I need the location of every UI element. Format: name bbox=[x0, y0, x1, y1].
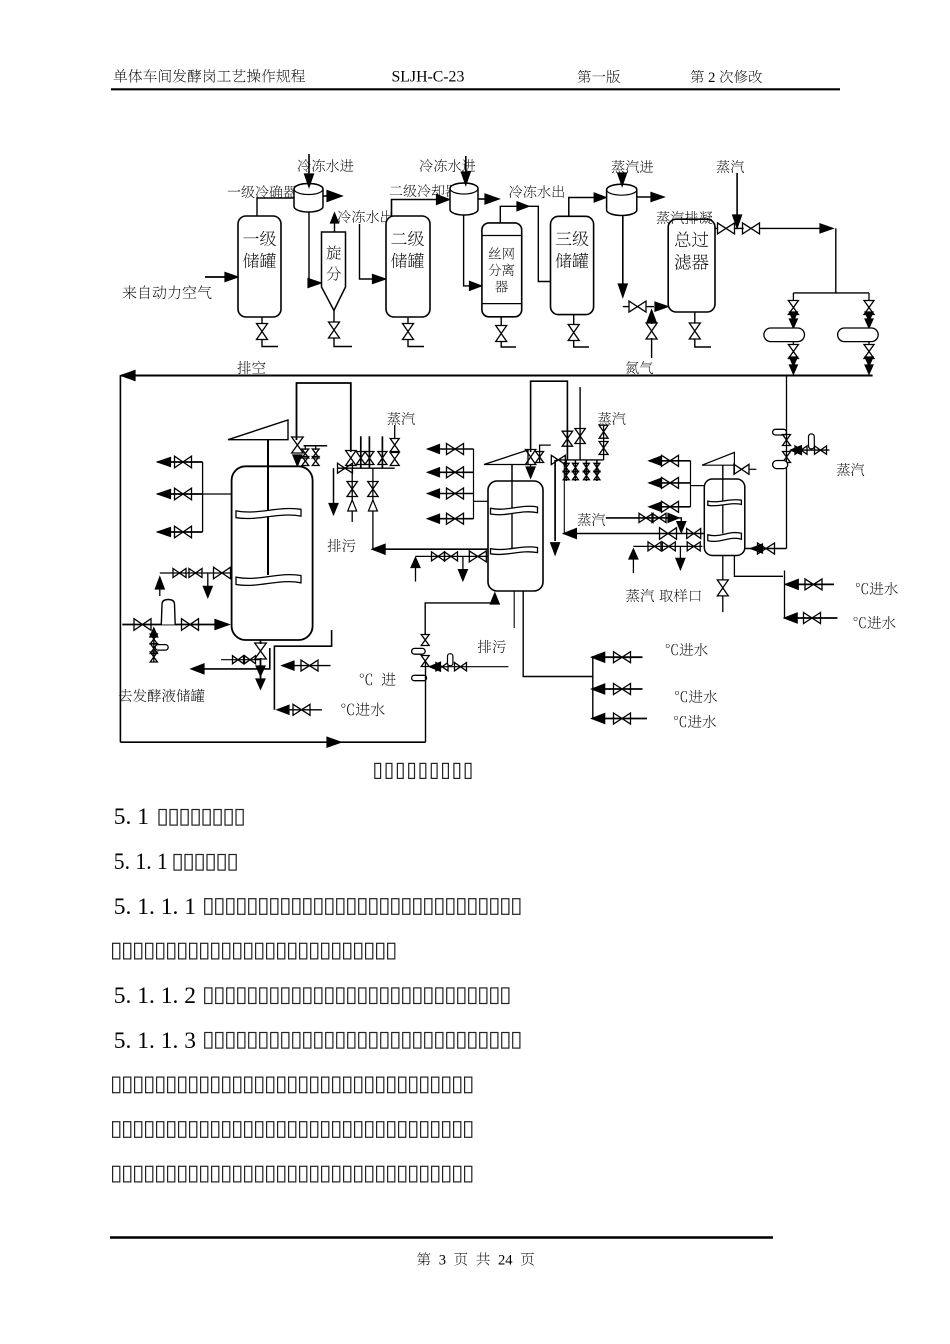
trap T1 capsule bbox=[764, 328, 805, 342]
pipe cyclone top vent bbox=[334, 222, 336, 232]
valve branch1 bottom bbox=[788, 345, 798, 359]
body 5.1.1 tofu bbox=[174, 855, 236, 871]
valve steam header 2 bbox=[743, 223, 760, 234]
valve F1 stub2 b bbox=[312, 457, 319, 466]
label 冷冻水进 (C1) bbox=[298, 159, 354, 172]
agitator shaft F2 bbox=[511, 465, 513, 548]
footer page number bbox=[417, 1252, 534, 1268]
pipe F2 side header bbox=[473, 449, 475, 519]
motor triangle F3 bbox=[702, 452, 734, 465]
valve steam mid a bbox=[639, 513, 653, 522]
arrow chilled water into C2 bbox=[461, 172, 470, 185]
pipe branch1 below bbox=[792, 342, 794, 345]
pipe C3 bottom down bbox=[622, 216, 624, 290]
fermenter F2 bbox=[488, 481, 543, 591]
body para line 2 tofu bbox=[113, 943, 395, 959]
valve V2 drain bbox=[403, 324, 414, 340]
pipe F3 cw out bbox=[734, 556, 783, 577]
pipe F2 side3 bbox=[428, 493, 474, 495]
pipe F1 drain cross bbox=[221, 659, 261, 661]
vessel V4 label 分离 bbox=[488, 264, 514, 276]
arrow into V2 bbox=[373, 275, 386, 284]
pipe branch2 below bbox=[868, 342, 870, 345]
pipe F3 drain below bbox=[722, 596, 724, 612]
pipe separator top out bbox=[500, 206, 519, 223]
arrow F2 bottom inlet bbox=[490, 593, 499, 604]
label 冷冻水出 (C2) bbox=[509, 185, 564, 198]
svg-text:5. 1. 1. 1: 5. 1. 1. 1 bbox=[114, 894, 196, 920]
vessel V2 二级储罐 bbox=[386, 216, 430, 317]
vessel V2 label 储罐 bbox=[391, 253, 424, 268]
pipe F1 loop branch1 bbox=[282, 665, 331, 667]
pipe manifold leg x580 bbox=[579, 387, 581, 460]
agitator shaft F1 inner bbox=[267, 466, 269, 575]
pipe F1 vent side header bbox=[304, 445, 328, 447]
arrow C1 outlet bbox=[327, 191, 342, 202]
pipe F3 side3 bbox=[649, 506, 691, 508]
arrow into filter bbox=[655, 302, 668, 311]
pipe 冷冻水出 to V2 bbox=[360, 224, 375, 279]
svg-text:2: 2 bbox=[705, 70, 720, 86]
impeller F2 lower bbox=[491, 547, 538, 555]
arrow branch2 down a bbox=[865, 312, 873, 321]
pipe F2 manifold thin leg bbox=[563, 462, 565, 533]
valve F2 side1 bbox=[447, 444, 464, 455]
cooler C1 一级冷确器 bbox=[294, 184, 323, 213]
label ℃进水 (F2 b) bbox=[675, 690, 717, 703]
pipe steam mid corner bbox=[676, 518, 681, 524]
valve F3 side3 bbox=[662, 501, 679, 512]
valve F1 inlet 1 bbox=[134, 619, 151, 631]
pipe branch1 stem bbox=[792, 293, 794, 301]
valve F2 lower a bbox=[432, 552, 445, 561]
vessel V5 label 总过 bbox=[675, 231, 708, 247]
valve F2 hang 1 b bbox=[563, 471, 569, 479]
valve F2 hang 3 b bbox=[583, 471, 589, 479]
motor triangle F2 bbox=[484, 450, 528, 465]
pipe F1 feed up stem bbox=[159, 589, 161, 596]
arrow F2 side4 bbox=[428, 514, 440, 523]
capsule riser branch vertical bbox=[809, 434, 815, 449]
pipe F1 side1 bbox=[158, 461, 203, 463]
impeller F1 lower bbox=[236, 575, 301, 586]
pipe chilled water into C1 bbox=[308, 154, 310, 180]
arrow F1 side3 bbox=[158, 528, 171, 537]
arrow riser branch left bbox=[791, 446, 802, 455]
valve on U right leg bbox=[346, 451, 356, 466]
pipe manifold leg x568 bbox=[566, 427, 568, 460]
pipe F1 manifold bbox=[338, 467, 395, 469]
arrow separator out right bbox=[517, 202, 529, 211]
vessel V1 一级储罐 bbox=[238, 216, 281, 317]
capsule F2 small vertical bbox=[448, 654, 453, 666]
pipe right riser bbox=[786, 376, 788, 549]
pipe F1 vent stub2 bbox=[315, 446, 317, 450]
svg-text:5. 1: 5. 1 bbox=[114, 804, 149, 830]
label 蒸汽 (F3) bbox=[837, 463, 864, 476]
pipe vent header 排空 bbox=[121, 375, 873, 377]
valve on line to filter bbox=[629, 301, 646, 312]
pipe separator drain outlet bbox=[501, 341, 516, 347]
label 蒸汽排凝 bbox=[657, 211, 713, 224]
valve F1 stub2 a bbox=[312, 449, 319, 458]
arrow F1 side1 bbox=[158, 458, 171, 467]
pipe manifold stem2 bbox=[368, 436, 370, 468]
valve F1 feed a bbox=[173, 569, 186, 578]
pipe F2 side2 bbox=[428, 471, 474, 473]
label 氮气 bbox=[626, 361, 653, 374]
pipe F2 vent arrow stem bbox=[530, 464, 532, 469]
capsule riser lower bbox=[773, 461, 788, 469]
arrow F3 side3 bbox=[649, 502, 661, 511]
pipe V1 drain outlet bbox=[262, 339, 278, 347]
valve F2 hang 1 a bbox=[563, 463, 569, 471]
valve F2 cw2 bbox=[614, 684, 631, 695]
pipe F1 loop branch2 bbox=[277, 709, 322, 711]
valve F1 stub1 a bbox=[302, 449, 309, 458]
valve F1 loop branch1 bbox=[301, 660, 318, 671]
valve F2 cw1 bbox=[614, 652, 631, 663]
valve F1 drain cross a bbox=[233, 656, 244, 664]
impeller F3 upper bbox=[708, 500, 742, 506]
valve sample a bbox=[648, 542, 661, 551]
pipe manifold down leg1 bbox=[351, 468, 353, 522]
valve F3 drain bbox=[717, 580, 728, 596]
pipe nitrogen stem bbox=[651, 322, 653, 324]
pipe F2 hang stem 2 bbox=[574, 460, 576, 481]
fermenter F3 bbox=[704, 479, 745, 556]
valve manifold stem3 bbox=[378, 452, 387, 465]
agitator shaft F2 inner bbox=[511, 481, 513, 548]
valve sample c bbox=[687, 542, 700, 551]
arrow into cooler C2 bbox=[437, 195, 450, 205]
pipe F3 side header bbox=[690, 461, 692, 507]
trap T2 capsule bbox=[838, 328, 879, 342]
pipe F3 side connect bbox=[691, 485, 705, 487]
fermenter F1 bbox=[232, 466, 313, 640]
label ℃进水 (F2 c) bbox=[674, 715, 716, 728]
valve F2 cross a bbox=[436, 663, 448, 671]
pipe separator drain stem bbox=[500, 317, 502, 326]
valve F2 side4 bbox=[447, 513, 464, 524]
pipe F3 drain bbox=[722, 556, 724, 580]
label ℃进水 (F1) bbox=[341, 703, 384, 717]
arrow branch1 down a bbox=[789, 312, 797, 321]
valve F1 drain cross b bbox=[245, 656, 256, 664]
label 蒸汽 (F2 manifold) bbox=[598, 412, 625, 425]
arrow chilled water into C1 bbox=[305, 174, 314, 187]
vessel V4 label 丝网 bbox=[489, 247, 514, 259]
valve F1 stub1 b bbox=[302, 457, 309, 466]
arrow vent left bbox=[121, 371, 135, 381]
svg-text:3: 3 bbox=[439, 1253, 446, 1269]
arrow steam mid down bbox=[677, 522, 686, 533]
pipe sample line bbox=[633, 545, 702, 547]
pipe F2 side1 bbox=[428, 448, 474, 450]
pipe bottom transfer bbox=[120, 741, 425, 743]
arrow C3 outlet bbox=[651, 193, 664, 202]
valve F1 branch a bbox=[150, 634, 157, 644]
label 蒸汽 (F1 manifold) bbox=[387, 412, 414, 425]
label 二级冷却器 bbox=[390, 184, 459, 197]
valve F2 hang 2 b bbox=[572, 471, 578, 479]
pipe steam valves stem bbox=[603, 425, 605, 460]
pipe F2 cw1 bbox=[592, 656, 643, 658]
pipe V1 drain stem bbox=[261, 317, 263, 324]
pipe F2 hang stem 1 bbox=[565, 460, 567, 481]
footer 第 3 页 共 24 页 bbox=[417, 1252, 534, 1268]
pipe V5 drain outlet bbox=[695, 339, 711, 348]
arrow manifold leg2 up bbox=[368, 500, 377, 511]
arrow F3 cw1 bbox=[785, 579, 798, 589]
valve riser branch b bbox=[815, 446, 827, 454]
pipe F1 recirculation loop bbox=[274, 630, 331, 710]
arrow into cooler C3 bbox=[594, 193, 606, 202]
arrow F1 drain down b bbox=[256, 679, 265, 689]
valve F1 manifold left bbox=[338, 463, 353, 473]
arrow blowdown left bbox=[372, 544, 385, 554]
pipe manifold down leg2 bbox=[372, 468, 374, 548]
valve F2 vent bbox=[525, 450, 535, 465]
pipe chilled water into C2 bbox=[465, 156, 467, 178]
valve branch2 bottom bbox=[864, 345, 874, 359]
valve V5 drain bbox=[689, 323, 700, 339]
agitator shaft F1 bbox=[267, 440, 269, 573]
label 蒸汽 (top right) bbox=[717, 160, 744, 173]
valve steam to F3 big bbox=[660, 528, 677, 540]
valve branch1 top bbox=[788, 301, 798, 315]
valve F1 drain bbox=[255, 643, 267, 659]
svg-text:5. 1. 1. 2: 5. 1. 1. 2 bbox=[114, 983, 196, 1009]
pipe F1 side header bbox=[202, 462, 204, 532]
vessel V3 label 储罐 bbox=[556, 253, 589, 268]
valve F2 lower c bbox=[469, 551, 486, 562]
label 冷冻水进 (C2) bbox=[420, 159, 476, 172]
pipe C1 bottom down to cyclone bbox=[309, 212, 315, 283]
pipe F2 cw2 bbox=[592, 688, 643, 690]
vessel V3 label 三级 bbox=[556, 231, 589, 246]
pipe F2 inlet down bbox=[425, 661, 427, 742]
pipe F1 drain below bbox=[260, 658, 262, 683]
pipe F3 cw1 bbox=[785, 583, 834, 585]
pipe manifold stem1 bbox=[360, 436, 362, 468]
valve leg x580 bbox=[575, 429, 585, 444]
pipe riser to F3 bbox=[745, 548, 787, 550]
pipe F2 lower line bbox=[416, 555, 489, 557]
body para line 5 tofu bbox=[113, 1166, 472, 1182]
pipe V2 top to cooler C2 bbox=[392, 200, 442, 217]
valve F2 inlet bbox=[421, 635, 429, 646]
valve F2 hang 2 a bbox=[572, 463, 578, 471]
pipe F2 side4 bbox=[428, 518, 474, 520]
arrow manifold leg1 up bbox=[348, 500, 357, 511]
cooler C3 steam heater bbox=[607, 184, 637, 215]
arrow sample up bbox=[629, 549, 638, 559]
pipe branch2 stem bbox=[868, 293, 870, 301]
pipe manifold stem3 bbox=[381, 436, 383, 468]
valve steam mid b bbox=[652, 513, 666, 522]
valve manifold stem1 bbox=[356, 452, 365, 465]
arrow F2 inlet left bbox=[430, 662, 441, 671]
valve manifold leg1 bbox=[347, 482, 357, 497]
arrow branch2 to vent b bbox=[865, 365, 873, 374]
label 蒸汽 (mid) bbox=[578, 513, 605, 526]
label 排污 (F1) bbox=[328, 539, 356, 552]
pipe C2 outlet right bbox=[478, 198, 492, 200]
valve F2 manifold left bbox=[551, 455, 565, 464]
valve F1 branch c bbox=[150, 652, 157, 662]
label 排污 (F2) bbox=[478, 640, 506, 653]
pipe separator out to V3 bbox=[526, 206, 551, 281]
pipe F1 inlet main bbox=[122, 624, 216, 626]
vessel V5 总过滤器 bbox=[668, 219, 715, 312]
arrow steam mid right bbox=[668, 513, 679, 522]
separator bottom head line bbox=[482, 303, 522, 305]
header rule bbox=[111, 88, 840, 90]
pipe steam header corner down bbox=[793, 228, 835, 293]
pipe F2 steam manifold bbox=[556, 459, 604, 461]
pipe F3 side1 bbox=[649, 460, 691, 462]
pipe cyclone drain outlet bbox=[334, 338, 352, 347]
pipe F2 overhead U bbox=[531, 381, 568, 452]
body 5.1.1.3 tofu bbox=[205, 1033, 520, 1049]
pipe F2 side stub bbox=[540, 445, 551, 463]
arrow branch2 to vent a bbox=[865, 357, 873, 366]
label 一级冷确器 bbox=[228, 185, 297, 198]
pipe F2 inlet cross bbox=[430, 666, 509, 668]
pipe F3 cw2 bbox=[784, 617, 837, 619]
valve F3 cw1 bbox=[805, 579, 822, 590]
pipe steam header mid bbox=[735, 227, 744, 229]
arrow cyclone vent up bbox=[331, 213, 339, 223]
pipe F2 cw3 bbox=[592, 718, 647, 720]
pipe cyclone drain stem bbox=[333, 311, 335, 323]
arrow into F3 right bbox=[751, 544, 763, 553]
pipe F2 manifold left leg bbox=[554, 460, 556, 541]
arrow F2 lower down bbox=[458, 570, 467, 581]
body para line 4 tofu bbox=[113, 1122, 472, 1138]
agitator shaft F3 inner bbox=[722, 479, 724, 534]
header 第一版 bbox=[578, 70, 621, 83]
pipe steam mid line bbox=[606, 517, 668, 519]
pipe riser branch bbox=[791, 449, 830, 451]
valve F3 side2 bbox=[662, 477, 679, 488]
arrow F3 side1 bbox=[649, 456, 661, 465]
cyclone label 旋 bbox=[326, 246, 340, 260]
valve F2 side stub bbox=[536, 452, 544, 463]
vessel V1 label 储罐 bbox=[243, 253, 276, 268]
valve F2 side3 bbox=[447, 488, 464, 499]
pipe nitrogen junction line bbox=[623, 306, 629, 308]
valve F2 inlet b bbox=[421, 656, 429, 667]
impeller F1 upper bbox=[236, 508, 301, 518]
pipe F3 side2 bbox=[649, 482, 691, 484]
vessel V4 丝网分离器 bbox=[482, 223, 522, 317]
label 蒸汽进 bbox=[612, 160, 654, 173]
arrow F2 cw1 bbox=[592, 652, 605, 662]
valve riser branch a bbox=[795, 446, 807, 454]
label 排空 bbox=[237, 361, 265, 374]
valve F3 side1 bbox=[662, 455, 679, 466]
pipe C1 outlet right bbox=[323, 195, 334, 197]
pipe F2 side connect bbox=[474, 500, 489, 502]
arrow air into V1 bbox=[225, 273, 238, 282]
pipe V5 drain stem bbox=[694, 312, 696, 324]
pipe C3 outlet right bbox=[637, 196, 657, 198]
pipe F1 vent stub1 bbox=[304, 446, 306, 450]
arrow bottom transfer right bbox=[327, 737, 341, 747]
arrow branch2 down b bbox=[865, 319, 873, 328]
svg-text:5. 1. 1. 3: 5. 1. 1. 3 bbox=[114, 1028, 196, 1054]
pipe F1 side connect bbox=[203, 493, 232, 495]
arrow branch1 to vent b bbox=[789, 365, 797, 374]
arrow F1 feed up bbox=[155, 577, 164, 589]
valve F1 loop branch2 bbox=[293, 704, 310, 715]
valve F1 side1 bbox=[175, 456, 192, 468]
pipe F1 inlet branch stem bbox=[153, 635, 155, 662]
vessel V4 label 器 bbox=[495, 281, 508, 293]
valve F1 vent bbox=[292, 437, 304, 453]
pipe sample up stem bbox=[632, 557, 634, 573]
pipe V2 drain stem bbox=[407, 317, 409, 324]
arrow C3 down bbox=[618, 284, 627, 297]
arrow F2 side1 bbox=[428, 445, 440, 454]
valve F3 cw2 bbox=[804, 613, 821, 624]
capsule F1 branch bbox=[155, 645, 168, 651]
valve V3 drain bbox=[568, 325, 579, 341]
arrow steam line left bbox=[563, 529, 576, 539]
motor triangle F1 bbox=[228, 420, 288, 440]
valve F2 cw3 bbox=[614, 713, 631, 724]
label 冷冻水出 (cyclone) bbox=[338, 210, 393, 223]
pipe steam branch right bbox=[836, 292, 869, 294]
arrow F1 blowdown left bbox=[191, 664, 204, 674]
svg-text:SLJH-C-23: SLJH-C-23 bbox=[392, 69, 465, 86]
arrow F2 lower up bbox=[411, 558, 420, 568]
pipe steam stub down bbox=[394, 425, 396, 439]
vessel V2 label 二级 bbox=[391, 231, 424, 246]
pipe steam into C3 bbox=[621, 173, 623, 178]
valve F1 side2 bbox=[175, 488, 192, 500]
pipe F2 cw header bbox=[592, 657, 594, 718]
arrow steam header right bbox=[820, 224, 833, 233]
arrow F1 drain down a bbox=[256, 666, 265, 676]
impeller F2 upper bbox=[491, 506, 538, 514]
arrow steam into C3 bbox=[618, 173, 627, 186]
pipe left loop border bbox=[119, 376, 121, 743]
pipe F3 top stub bbox=[733, 468, 735, 470]
pipe F3 top stub right bbox=[749, 468, 756, 470]
valve F2 cross b bbox=[455, 663, 467, 671]
caption 发酵工艺流程简图 (tofu boxes) bbox=[375, 763, 471, 778]
arrow branch1 to vent a bbox=[789, 357, 797, 366]
valve F2 side2 bbox=[447, 467, 464, 478]
valve F1 side3 bbox=[175, 526, 192, 538]
valve F1 inlet 2 bbox=[182, 619, 199, 631]
header title 单体车间发酵岗工艺操作规程 bbox=[114, 69, 305, 83]
valve into F3 bbox=[758, 543, 775, 554]
valve F3 top stub bbox=[734, 464, 749, 474]
valve F1 branch b bbox=[150, 644, 157, 654]
pipe F2 hang stem 4 bbox=[596, 460, 598, 481]
label 去发酵液储罐 bbox=[119, 689, 205, 702]
valve riser b bbox=[783, 452, 791, 463]
pipe steam down to valve line bbox=[736, 173, 738, 215]
arrow F1 manifold left down bbox=[329, 504, 338, 515]
valve F2 hang 3 a bbox=[583, 463, 589, 471]
pipe F1 overhead U bbox=[297, 383, 351, 452]
arrow F1 inlet into vessel bbox=[215, 620, 229, 630]
